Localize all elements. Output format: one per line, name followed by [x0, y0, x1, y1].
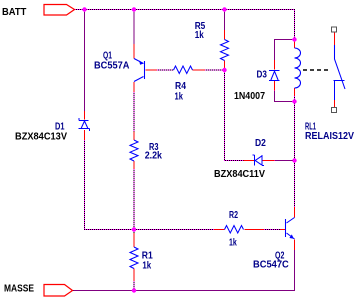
diode D3 1N4007: [269, 60, 280, 91]
svg-text:1N4007: 1N4007: [234, 91, 265, 102]
wire Q1 emitter net vertical: [133, 10, 135, 45]
junction node BATT/R5: [222, 7, 226, 11]
svg-text:D2: D2: [255, 138, 266, 149]
svg-text:1k: 1k: [195, 30, 204, 41]
svg-text:1k: 1k: [142, 261, 151, 272]
resistor R5 1k: [221, 30, 229, 70]
junction node BATT/D1: [82, 7, 86, 11]
svg-text:RELAIS12V: RELAIS12V: [305, 131, 354, 142]
wire R3 to mid node to R1: [133, 169, 135, 233]
junction node coil/D3 bottom: [292, 99, 296, 103]
wire Q1 collector to R3: [133, 92, 135, 132]
resistor R1 1k: [130, 233, 138, 281]
connector BATT flag: [44, 5, 75, 16]
wire left vertical lower + mid horizontal to R2: [85, 140, 215, 230]
wire R4 to node R5: [205, 69, 225, 71]
wire Q1 base to R4: [157, 69, 174, 71]
relay RL1 contact: [334, 33, 346, 108]
junction node BATT/Q1: [132, 7, 136, 11]
relay RL1 bottom pad: [332, 108, 337, 113]
svg-text:BZX84C13V: BZX84C13V: [15, 131, 67, 142]
transistor Q2 BC547C NPN: [280, 207, 295, 250]
svg-text:D3: D3: [257, 69, 268, 80]
junction node coil/D3 top: [292, 37, 296, 41]
junction node D2/Q2 collector: [292, 158, 296, 162]
diode D2 zener BZX84C11V: [244, 155, 275, 166]
wire D2 right to right vertical: [275, 160, 295, 162]
svg-text:1k: 1k: [229, 238, 237, 249]
svg-text:MASSE: MASSE: [4, 283, 34, 294]
wire R2 to Q2 base: [264, 229, 280, 231]
relay RL1 coil: [295, 41, 301, 97]
wire D3 branch bottom: [275, 91, 295, 102]
svg-text:2.2k: 2.2k: [145, 150, 163, 161]
transistor Q1 BC557A PNP: [134, 44, 157, 92]
relay RL1 top pad: [332, 27, 337, 32]
svg-text:BC557A: BC557A: [94, 60, 130, 71]
wire D3 branch top: [275, 40, 295, 61]
svg-text:1k: 1k: [175, 91, 184, 102]
wire R5 top pin to rail: [224, 10, 226, 31]
resistor R4 1k: [174, 66, 206, 74]
junction node R4/R5/D2: [222, 68, 226, 72]
wire top rail BATT net: [75, 10, 295, 40]
resistor R2 1k: [214, 226, 285, 234]
svg-text:R2: R2: [229, 210, 238, 221]
wire node to D2 left: [225, 70, 244, 161]
wire R1 bottom to ground rail: [133, 281, 135, 291]
diode D1 zener BZX84C13V: [79, 111, 90, 140]
wire right vertical coil bottom to Q2 collector: [294, 96, 296, 207]
wire bottom ground rail MASSE net: [73, 250, 295, 291]
relay RL1 dashed link: [303, 69, 328, 71]
svg-text:BZX84C11V: BZX84C11V: [214, 169, 265, 180]
svg-text:BATT: BATT: [2, 7, 26, 18]
resistor R3 2.2k: [130, 132, 138, 170]
svg-text:BC547C: BC547C: [253, 260, 289, 271]
wire left vertical upper (BATT to D1): [84, 10, 86, 112]
junction node R1/ground: [132, 288, 136, 292]
connector MASSE flag: [44, 285, 73, 297]
junction node R3/R1/R2: [132, 227, 136, 231]
